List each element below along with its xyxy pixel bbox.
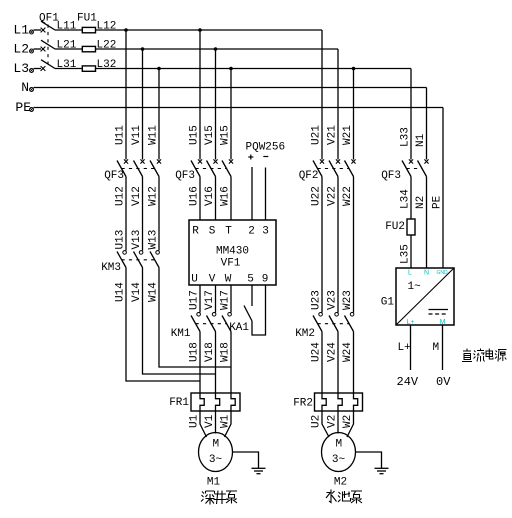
svg-text:W18: W18: [220, 342, 232, 362]
svg-text:W16: W16: [220, 186, 232, 206]
svg-text:QF3: QF3: [381, 170, 401, 182]
breaker QF2 pole 3: [345, 159, 356, 176]
svg-text:MM430: MM430: [216, 246, 249, 258]
breaker QF3 linkage (branch 2): [196, 168, 227, 170]
svg-text:V1: V1: [204, 414, 216, 428]
svg-text:1~: 1~: [408, 281, 422, 293]
wire V17: [204, 285, 216, 313]
junction L2-V15: [214, 47, 218, 51]
svg-text:W22: W22: [342, 186, 354, 206]
wire U14 to motor feed: [115, 268, 201, 382]
text 直流电源 (DC power supply): [462, 349, 507, 362]
svg-text:W1: W1: [220, 414, 232, 428]
thermal relay FR2 label: [293, 398, 313, 410]
fuse FU2 label: [385, 221, 405, 233]
svg-text:L33: L33: [400, 127, 412, 147]
svg-text:W24: W24: [342, 342, 354, 362]
svg-text:L+: L+: [398, 342, 411, 354]
svg-text:W13: W13: [148, 230, 160, 250]
wire L1 into QF1: [34, 29, 42, 31]
fuse FU1 pole 3: [82, 66, 95, 71]
wire PQW256- to pin 3: [265, 168, 267, 221]
wire M2 to earth: [356, 452, 382, 468]
contactor KM1 label: [171, 328, 191, 340]
breaker QF1 linkage: [47, 25, 49, 65]
wire PQW256+ to pin 2: [251, 167, 253, 220]
breaker QF4 label: [381, 170, 401, 182]
pin 3: [262, 226, 269, 238]
svg-text:FU1: FU1: [77, 13, 97, 25]
junction L3-W11: [157, 67, 161, 71]
wire L3 bus: [96, 68, 412, 70]
svg-text:M1: M1: [207, 477, 221, 489]
node label L+: [398, 342, 411, 354]
breaker QF1 label: [39, 13, 59, 25]
polarity mark -: [263, 156, 268, 158]
svg-text:L3: L3: [13, 61, 29, 76]
contactor KM1 pole 1: [191, 313, 200, 332]
contactor KM3 label: [101, 262, 121, 274]
VFD text MM430: [216, 246, 249, 258]
junction L1-U15: [198, 28, 202, 32]
node label M: [433, 342, 440, 354]
thermal relay FR1 label: [169, 397, 189, 409]
node label 0V: [436, 375, 451, 389]
svg-text:3~: 3~: [209, 454, 223, 466]
svg-text:N2: N2: [415, 196, 427, 209]
svg-text:L: L: [408, 270, 412, 277]
G1 pin GND: [436, 270, 448, 276]
wire V12/V13: [131, 177, 143, 251]
breaker QF3 pole 2 (branch 1): [134, 159, 145, 176]
svg-text:KM2: KM2: [295, 328, 315, 340]
G1 AC symbol 1~: [408, 281, 422, 293]
thermal relay FR1 element 2: [216, 393, 220, 411]
svg-text:W23: W23: [342, 290, 354, 310]
svg-text:S: S: [209, 226, 216, 238]
wire L33: [400, 69, 412, 160]
wire U24: [311, 332, 323, 394]
svg-text:T: T: [225, 226, 232, 238]
svg-text:24V: 24V: [397, 375, 419, 389]
svg-text:U2: U2: [311, 415, 323, 428]
wire U2 to motor: [311, 411, 330, 437]
svg-text:V21: V21: [327, 125, 339, 145]
svg-text:PE: PE: [432, 195, 444, 209]
wire N bus: [34, 87, 427, 89]
thermal relay FR2 element 1: [322, 393, 326, 411]
pin V: [209, 274, 216, 286]
contactor KM3 pole 2: [134, 251, 143, 268]
svg-text:VF1: VF1: [221, 258, 241, 270]
breaker QF2 pole 1: [313, 159, 324, 176]
svg-text:U14: U14: [115, 282, 127, 302]
G1 pin N: [424, 270, 429, 277]
svg-text:U23: U23: [311, 290, 323, 310]
contactor KM2 label: [295, 328, 315, 340]
node L1 terminal: [13, 23, 33, 38]
svg-text:W: W: [225, 274, 232, 286]
G1 pin L: [408, 270, 412, 277]
svg-text:L1: L1: [13, 23, 29, 38]
wire U11: [115, 30, 127, 160]
svg-text:L22: L22: [97, 40, 117, 52]
wire L3 QF1 to fuse: [55, 68, 82, 70]
wire U17: [189, 285, 201, 313]
svg-text:N: N: [21, 80, 29, 95]
breaker QF3 label (branch 2): [175, 170, 195, 182]
wire L3 into QF1: [34, 68, 42, 70]
breaker QF2 linkage: [318, 168, 350, 170]
breaker QF3 pole 1 (branch 1): [117, 159, 128, 176]
wire V11: [131, 49, 143, 160]
svg-text:QF2: QF2: [299, 170, 319, 182]
G1 pin L+: [407, 319, 415, 326]
pin S: [209, 226, 216, 238]
svg-text:W17: W17: [220, 290, 232, 310]
svg-text:KM3: KM3: [101, 262, 121, 274]
breaker QF3 pole 3 (branch 2): [222, 159, 233, 176]
wire N1: [415, 88, 427, 160]
wire L1 QF1 to fuse: [55, 29, 82, 31]
wire V14 to motor feed: [131, 268, 216, 375]
svg-text:U17: U17: [189, 290, 201, 310]
svg-text:3: 3: [262, 226, 269, 238]
svg-text:W14: W14: [148, 282, 160, 302]
relay contact KA1: [244, 306, 252, 322]
breaker QF4 pole 2: [418, 159, 429, 176]
thermal relay FR2 element 2: [338, 393, 342, 411]
motor M2: [322, 433, 356, 472]
svg-text:R: R: [192, 226, 199, 238]
svg-text:QF3: QF3: [175, 170, 195, 182]
wire V16: [204, 177, 216, 221]
breaker QF4 linkage: [407, 168, 423, 170]
contactor KM2 pole 1: [313, 313, 322, 332]
node label L21: [57, 40, 77, 52]
contactor KM3 linkage: [122, 259, 155, 261]
wire KA1 to pin 9: [252, 285, 266, 335]
wire W14 to motor feed: [148, 268, 232, 368]
svg-text:GND: GND: [436, 270, 448, 276]
node label 24V: [397, 375, 419, 389]
svg-text:PE: PE: [15, 100, 31, 115]
wire M output: [442, 325, 444, 370]
node N terminal: [21, 80, 33, 95]
wire pin 5 down: [251, 285, 253, 306]
node PE terminal: [15, 100, 33, 115]
wire W1 to motor: [220, 411, 232, 437]
G1 DC symbol: [429, 310, 449, 315]
wire V24: [327, 332, 339, 394]
junction L1-U11: [124, 28, 128, 32]
svg-text:V2: V2: [327, 415, 339, 428]
motor M1: [199, 433, 233, 472]
contactor KM2 pole 3: [345, 313, 354, 332]
wire W18: [220, 332, 232, 394]
svg-text:FR1: FR1: [169, 397, 189, 409]
svg-text:V12: V12: [131, 186, 143, 206]
svg-text:L+: L+: [407, 319, 415, 326]
thermal relay FR2 element 3: [354, 393, 358, 411]
svg-text:V22: V22: [327, 186, 339, 206]
svg-text:U22: U22: [311, 186, 323, 206]
wire V2 to motor: [327, 411, 339, 434]
pin 2: [248, 226, 255, 238]
svg-text:L34: L34: [400, 189, 412, 209]
node label L22: [97, 40, 117, 52]
svg-text:M: M: [440, 319, 446, 326]
node L3 terminal: [13, 61, 33, 76]
wire U12/U13: [115, 177, 127, 251]
power supply G1 box: [396, 268, 454, 325]
signal source PQW256 label: [246, 142, 286, 154]
svg-text:W12: W12: [148, 186, 160, 206]
svg-text:G1: G1: [381, 297, 395, 309]
svg-text:U24: U24: [311, 342, 323, 362]
node label L12: [97, 21, 117, 33]
svg-text:U16: U16: [189, 186, 201, 206]
wire L34: [400, 177, 412, 220]
wire W24: [342, 332, 354, 394]
contactor KM2 linkage: [318, 323, 350, 325]
motor M1 label: [207, 477, 221, 489]
power supply G1 label: [381, 297, 395, 309]
wire M1 to earth: [233, 452, 259, 468]
svg-text:M: M: [212, 439, 219, 451]
VFD U1 MM430 box: [189, 220, 276, 285]
svg-text:U15: U15: [189, 125, 201, 145]
contactor KM2 pole 2: [329, 313, 338, 332]
wire W11: [148, 69, 160, 160]
wire W2 to motor: [342, 411, 354, 437]
wire W17: [220, 285, 232, 313]
breaker QF1 pole 2: [41, 40, 55, 51]
breaker QF4 pole 1: [402, 159, 413, 176]
breaker QF2 label: [299, 170, 319, 182]
thermal relay FR1 element 1: [200, 393, 204, 411]
wire V1 to motor: [204, 411, 216, 434]
thermal relay FR1 box: [191, 393, 240, 411]
svg-text:U12: U12: [115, 186, 127, 206]
wire L1 bus: [96, 29, 323, 31]
svg-text:KA1: KA1: [229, 322, 249, 334]
svg-text:U: U: [191, 274, 198, 286]
ground (M1): [252, 468, 266, 473]
contactor KM1 linkage: [196, 323, 227, 325]
wire PE bus: [34, 107, 444, 109]
wire W15: [220, 69, 232, 160]
breaker QF3 pole 3 (branch 1): [150, 159, 161, 176]
svg-text:L11: L11: [57, 21, 77, 33]
svg-text:U18: U18: [189, 342, 201, 362]
node L2 terminal: [13, 42, 33, 57]
svg-text:V11: V11: [131, 125, 143, 145]
wire V21: [327, 49, 339, 160]
svg-text:PQW256: PQW256: [246, 142, 286, 154]
svg-text:9: 9: [262, 274, 269, 286]
svg-text:V13: V13: [131, 230, 143, 250]
wire L2 into QF1: [34, 48, 42, 50]
wire U21: [311, 30, 323, 160]
fuse FU1 label: [77, 13, 97, 25]
svg-text:W2: W2: [342, 415, 354, 428]
wire U18: [189, 332, 201, 394]
fuse FU1 pole 2: [82, 46, 95, 51]
svg-text:V14: V14: [131, 282, 143, 302]
wire N2: [415, 177, 427, 269]
svg-text:V15: V15: [204, 125, 216, 145]
wire V22/V23: [327, 177, 339, 313]
wire V18: [204, 332, 216, 394]
text 深井泵 (deep well pump): [201, 491, 237, 505]
svg-text:V18: V18: [204, 342, 216, 362]
wire W12/W13: [148, 177, 160, 251]
svg-text:V: V: [209, 274, 216, 286]
contactor KM1 pole 2: [207, 313, 216, 332]
text 水池泵 (pool pump): [326, 490, 362, 504]
wire PE drop: [432, 108, 444, 269]
wire U22/U23: [311, 177, 323, 313]
fuse FU1 pole 1: [82, 27, 95, 32]
breaker QF3 linkage (branch 1): [122, 168, 155, 170]
svg-text:V24: V24: [327, 342, 339, 362]
svg-text:U13: U13: [115, 230, 127, 250]
svg-text:2: 2: [248, 226, 255, 238]
polarity mark +: [248, 155, 253, 160]
svg-text:L21: L21: [57, 40, 77, 52]
svg-text:M: M: [433, 342, 440, 354]
svg-text:5: 5: [247, 274, 254, 286]
wire L35: [400, 235, 412, 268]
svg-text:W15: W15: [220, 125, 232, 145]
svg-text:W21: W21: [342, 125, 354, 145]
breaker QF2 pole 2: [329, 159, 340, 176]
svg-text:QF3: QF3: [104, 170, 124, 182]
contactor KM3 pole 3: [150, 251, 159, 268]
contactor KM1 pole 3: [222, 313, 231, 332]
svg-text:U11: U11: [115, 125, 127, 145]
pin R: [192, 226, 199, 238]
junction L3-W15: [229, 67, 233, 71]
wire V15: [204, 49, 216, 160]
VFD text VF1: [221, 258, 241, 270]
svg-text:L31: L31: [57, 59, 77, 71]
svg-text:W11: W11: [148, 125, 160, 145]
contactor KM3 pole 1: [117, 251, 126, 268]
pin T: [225, 226, 232, 238]
G1 pin M: [440, 319, 446, 326]
svg-text:V17: V17: [204, 290, 216, 310]
svg-text:3~: 3~: [332, 454, 346, 466]
svg-text:V23: V23: [327, 290, 339, 310]
junction L2-V11: [141, 47, 145, 51]
svg-text:FU2: FU2: [385, 221, 405, 233]
pin W: [225, 274, 232, 286]
svg-text:M2: M2: [334, 477, 347, 489]
svg-text:M: M: [335, 439, 342, 451]
wire L2 QF1 to fuse: [55, 48, 82, 50]
svg-text:L35: L35: [400, 244, 412, 264]
wire U15: [189, 30, 201, 160]
G1 diagonal: [396, 268, 454, 325]
wire L+ output: [410, 325, 412, 370]
svg-text:N: N: [424, 270, 429, 277]
svg-text:L32: L32: [97, 59, 117, 71]
svg-text:N1: N1: [415, 133, 427, 147]
wire W22/W23: [342, 177, 354, 313]
svg-text:U21: U21: [311, 125, 323, 145]
node label L31: [57, 59, 77, 71]
breaker QF3 pole 1 (branch 2): [191, 159, 202, 176]
pin 5: [247, 274, 254, 286]
motor M2 label: [334, 477, 347, 489]
node label L32: [97, 59, 117, 71]
wire L2 bus: [96, 48, 339, 50]
wire U16: [189, 177, 201, 221]
svg-text:FR2: FR2: [293, 398, 313, 410]
breaker QF1 pole 1: [41, 21, 55, 32]
wire U1 to motor: [189, 411, 207, 437]
relay KA1 label: [229, 322, 249, 334]
junction L3-W21: [352, 67, 356, 71]
breaker QF1 pole 3: [41, 60, 55, 71]
fuse FU2: [407, 219, 415, 235]
breaker QF3 label (branch 1): [104, 170, 124, 182]
svg-text:L12: L12: [97, 21, 117, 33]
pin 9: [262, 274, 269, 286]
svg-text:0V: 0V: [436, 375, 451, 389]
svg-text:KM1: KM1: [171, 328, 191, 340]
ground (M2): [375, 468, 389, 473]
node label L11: [57, 21, 77, 33]
svg-text:V16: V16: [204, 186, 216, 206]
svg-text:U1: U1: [189, 414, 201, 428]
wire W21: [342, 69, 354, 160]
svg-text:L2: L2: [13, 42, 29, 57]
thermal relay FR2 box: [315, 393, 363, 411]
breaker QF3 pole 2 (branch 2): [207, 159, 218, 176]
thermal relay FR1 element 3: [231, 393, 235, 411]
pin U: [191, 274, 198, 286]
wire W16: [220, 177, 232, 221]
